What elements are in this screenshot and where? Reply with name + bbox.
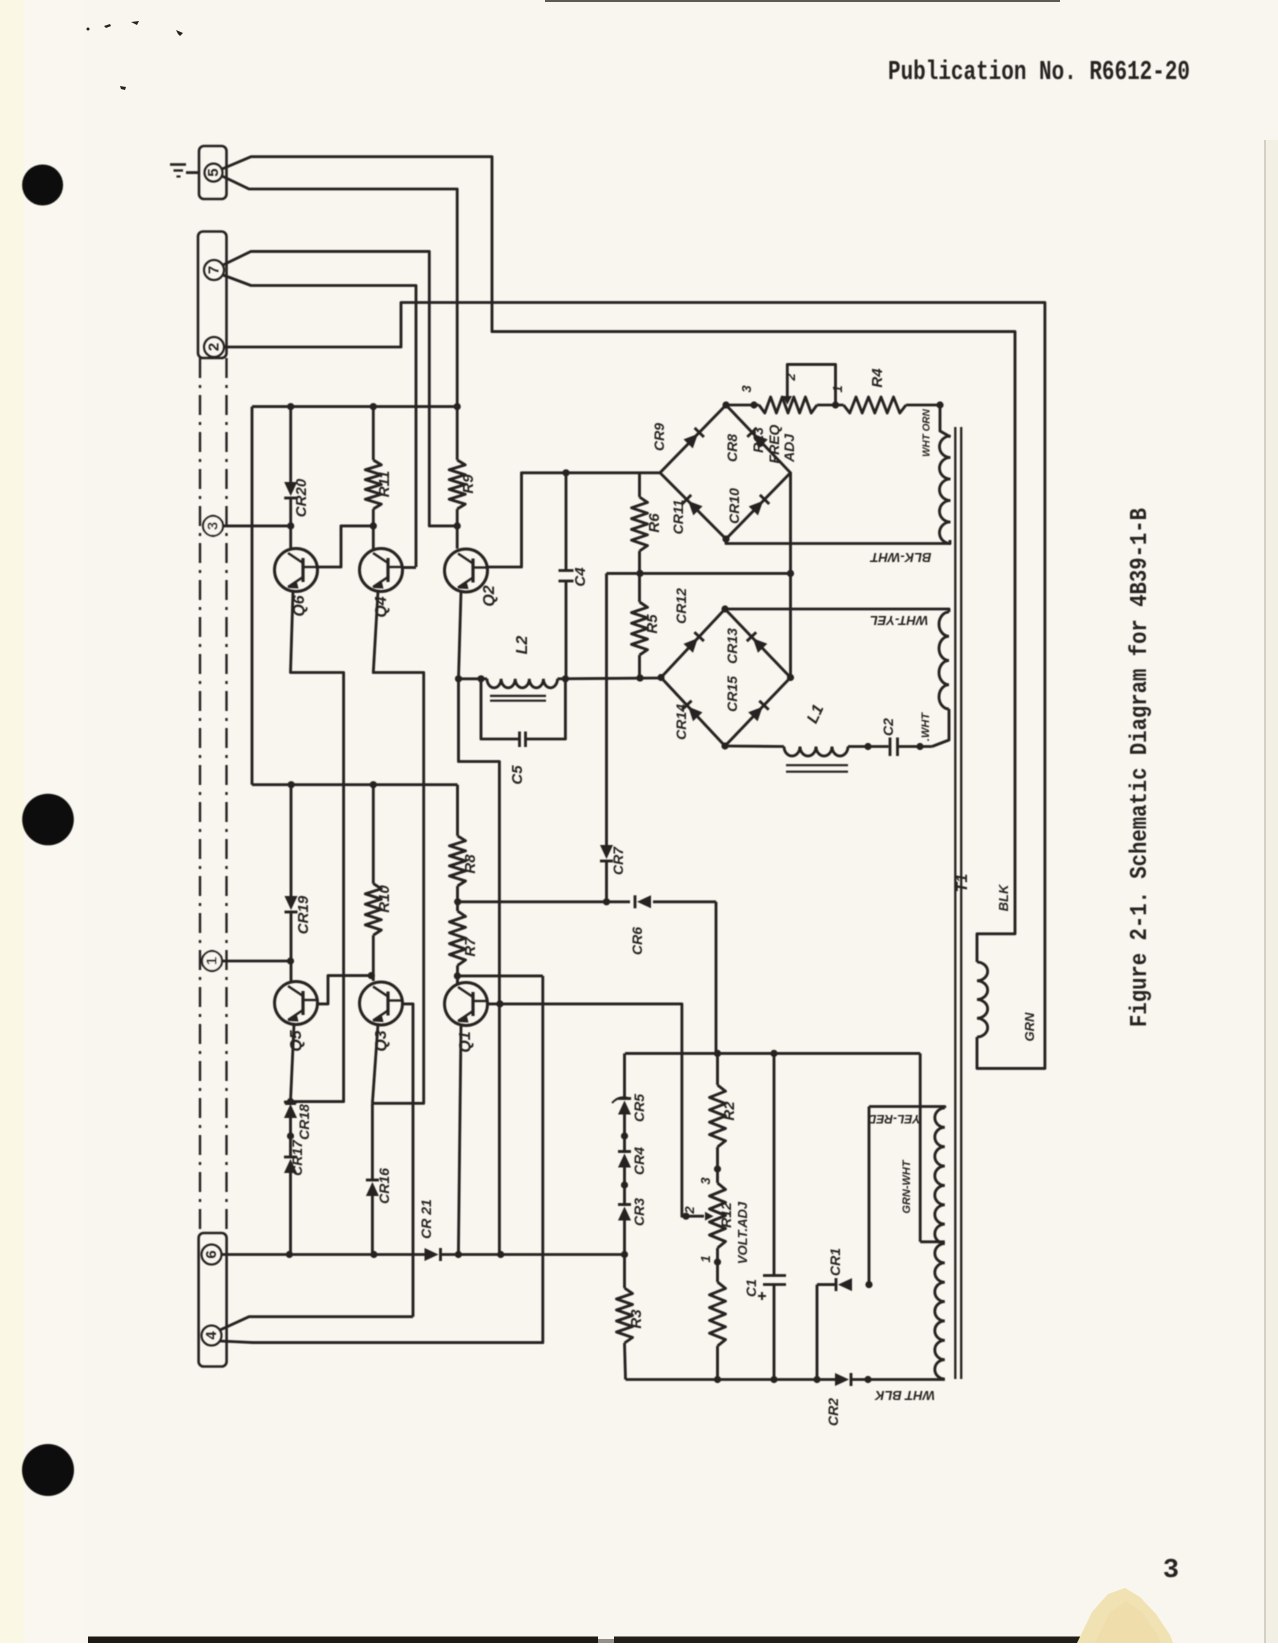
svg-text:GRN-WHT: GRN-WHT [901,1159,913,1213]
svg-text:R7: R7 [462,937,479,957]
svg-text:BLK: BLK [996,883,1011,911]
svg-text:R2: R2 [721,1101,738,1121]
svg-text:Figure 2-1. Schematic Diagram: Figure 2-1. Schematic Diagram for 4B39-1… [1127,508,1154,1027]
svg-text:CR16: CR16 [376,1168,392,1204]
svg-text:CR10: CR10 [726,488,742,524]
svg-text:CR15: CR15 [724,676,740,712]
svg-text:R11: R11 [376,471,393,497]
svg-text:.WHT: .WHT [920,712,932,741]
svg-text:1: 1 [830,385,845,392]
svg-text:Q1: Q1 [457,1031,474,1052]
svg-text:R9: R9 [460,474,477,494]
svg-text:CR8: CR8 [724,434,740,462]
svg-text:CR12: CR12 [673,588,689,624]
svg-text:ADJ: ADJ [781,433,797,463]
svg-text:R6: R6 [646,513,663,533]
svg-text:VOLT.ADJ: VOLT.ADJ [735,1201,750,1264]
svg-text:Q5: Q5 [288,1029,305,1051]
svg-text:WHT ORN: WHT ORN [922,408,933,457]
svg-text:T1: T1 [954,874,971,893]
svg-text:YEL-RED: YEL-RED [867,1112,920,1126]
svg-text:2: 2 [206,343,223,351]
svg-text:7: 7 [206,266,223,274]
svg-text:CR5: CR5 [631,1094,647,1122]
svg-text:4: 4 [203,1331,220,1340]
svg-text:BLK-WHT: BLK-WHT [870,550,932,565]
svg-text:CR19: CR19 [295,895,312,934]
svg-text:CR20: CR20 [293,478,310,517]
svg-text:R12: R12 [718,1202,734,1228]
svg-text:R13: R13 [750,427,766,453]
svg-text:CR18: CR18 [296,1104,312,1140]
svg-text:R4: R4 [869,368,886,388]
svg-text:CR6: CR6 [629,927,645,955]
svg-text:Q3: Q3 [373,1030,390,1051]
svg-text:GRN: GRN [1022,1012,1037,1042]
svg-text:L2: L2 [514,636,531,655]
svg-text:FREQ: FREQ [766,424,782,463]
svg-text:3: 3 [205,522,222,530]
svg-text:CR11: CR11 [670,499,686,534]
svg-text:1: 1 [204,957,221,965]
svg-text:CR2: CR2 [825,1398,841,1426]
svg-text:CR1: CR1 [827,1248,843,1276]
svg-text:C2: C2 [880,718,896,736]
svg-text:C5: C5 [509,765,526,785]
svg-text:5: 5 [205,168,222,176]
svg-text:R8: R8 [462,854,479,874]
svg-text:CR 21: CR 21 [418,1199,434,1239]
svg-text:C1: C1 [743,1279,759,1297]
svg-text:Publication No. R6612-20: Publication No. R6612-20 [888,58,1190,88]
svg-text:3: 3 [698,1177,713,1185]
svg-text:R10: R10 [376,885,393,913]
svg-text:R5: R5 [644,614,661,634]
svg-text:WHT BLK: WHT BLK [873,1388,935,1403]
svg-text:R3: R3 [628,1309,645,1329]
svg-text:C4: C4 [572,567,589,587]
svg-text:Q6: Q6 [291,595,308,616]
svg-text:6: 6 [203,1250,220,1258]
svg-text:CR4: CR4 [631,1147,647,1175]
svg-text:3: 3 [1163,1556,1179,1586]
svg-text:CR13: CR13 [724,628,740,664]
svg-text:WHT-YEL: WHT-YEL [870,613,929,628]
svg-text:1: 1 [698,1255,713,1262]
svg-text:2: 2 [783,373,798,382]
svg-text:Q2: Q2 [481,585,498,606]
svg-text:Q4: Q4 [373,596,390,617]
svg-text:CR3: CR3 [631,1198,647,1226]
svg-text:2: 2 [682,1206,697,1215]
svg-text:3: 3 [739,385,754,393]
svg-text:CR7: CR7 [610,846,626,875]
svg-text:CR17: CR17 [289,1139,305,1176]
svg-text:CR14: CR14 [673,704,689,740]
svg-text:CR9: CR9 [651,423,667,451]
